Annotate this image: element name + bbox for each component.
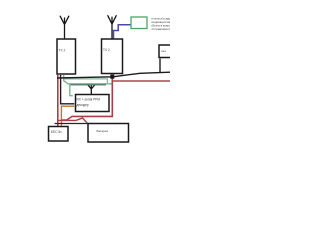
svg-text:отправлена и): отправлена и) [152, 27, 171, 31]
svg-text:декодер: декодер [77, 103, 89, 107]
svg-text:БЕС 5v: БЕС 5v [51, 130, 62, 134]
svg-text:ТХ 2: ТХ 2 [103, 48, 110, 52]
svg-text:Батарея: Батарея [97, 129, 109, 133]
svg-text:ТХ 2: ТХ 2 [59, 49, 66, 53]
svg-text:вых: вых [162, 50, 167, 53]
svg-text:RX + serial PPM: RX + serial PPM [77, 98, 101, 102]
